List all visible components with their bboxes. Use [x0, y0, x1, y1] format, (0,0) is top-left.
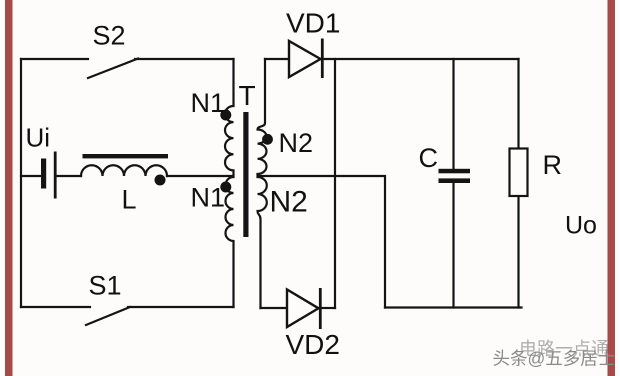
svg-text:N2: N2: [270, 186, 308, 219]
svg-text:头条@五多居士: 头条@五多居士: [493, 349, 616, 369]
svg-text:VD2: VD2: [286, 329, 340, 360]
svg-text:N2: N2: [279, 128, 314, 158]
svg-text:S1: S1: [89, 271, 122, 301]
svg-text:T: T: [239, 80, 256, 111]
svg-text:Uo: Uo: [565, 212, 597, 240]
svg-text:S2: S2: [93, 21, 126, 51]
svg-text:VD1: VD1: [286, 8, 340, 39]
svg-text:R: R: [543, 150, 563, 180]
svg-text:N1: N1: [191, 88, 226, 118]
svg-text:L: L: [122, 185, 137, 215]
svg-text:C: C: [419, 143, 439, 173]
svg-text:N1: N1: [191, 183, 226, 213]
svg-text:Ui: Ui: [26, 123, 51, 153]
